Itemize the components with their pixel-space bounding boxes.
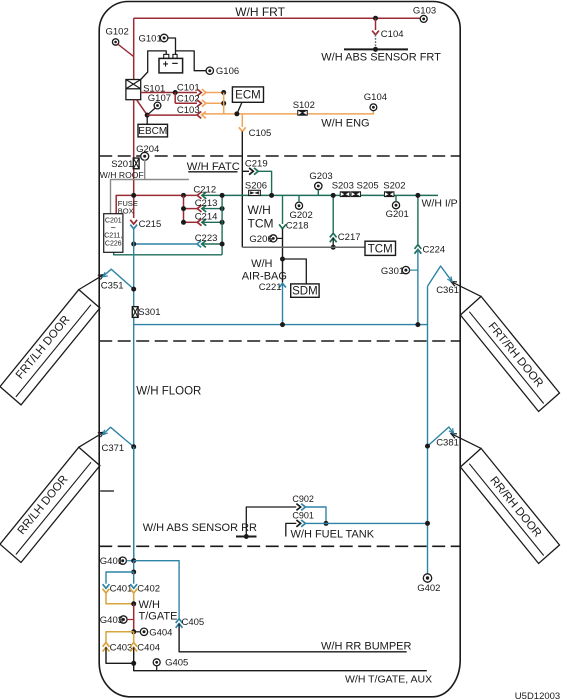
fuse box (104, 214, 123, 253)
node SDM junction (280, 257, 285, 262)
connector C221 arrow (279, 283, 286, 287)
wire C219 green (258, 171, 271, 195)
ground G201 (392, 202, 399, 209)
wire C105 to FATC (black) (241, 132, 243, 248)
node C102 orange end (221, 101, 226, 106)
svg-text:C102: C102 (177, 94, 200, 105)
wire C214 green (202, 221, 222, 223)
svg-text:C217: C217 (338, 232, 361, 243)
wire W/H TCM green main (202, 194, 438, 196)
wire EBCM lead (146, 115, 148, 124)
wire C401 teal (106, 572, 134, 584)
RR/RH DOOR (460, 448, 559, 563)
svg-text:U5D12003: U5D12003 (515, 691, 560, 700)
connector C218 arrow (279, 224, 286, 228)
wire C217 black (332, 238, 334, 247)
connector C103 arrows (197, 112, 201, 119)
svg-text:W/H RR BUMPER: W/H RR BUMPER (321, 640, 412, 652)
ground G405 (153, 659, 160, 666)
svg-text:C351: C351 (101, 281, 124, 292)
splice S206 (249, 190, 261, 195)
node C101 junction (173, 90, 178, 95)
svg-text:G107: G107 (148, 93, 171, 104)
connector C214 arrows (197, 219, 201, 226)
svg-text:W/H: W/H (248, 203, 271, 217)
wire C403 black (106, 647, 134, 663)
wire C214 red (184, 221, 198, 223)
splice S102 (297, 110, 308, 116)
wire battery + to S101 (141, 51, 167, 80)
svg-text:G106: G106 (216, 66, 239, 77)
wire left teal vertical (C215 to G401) (133, 229, 135, 561)
ECM box (232, 87, 263, 102)
svg-text:C218: C218 (286, 221, 309, 232)
splice S101 (126, 80, 141, 100)
svg-text:C226: C226 (105, 241, 122, 248)
svg-text:W/H FLOOR: W/H FLOOR (136, 386, 201, 398)
svg-text:W/H: W/H (251, 258, 272, 270)
RR/LH DOOR (0, 447, 100, 562)
connector C351 wire (104, 269, 134, 289)
wire G204 stem (grey) (144, 160, 146, 180)
connector C223 arrows (197, 241, 201, 248)
svg-text:C214: C214 (195, 212, 218, 223)
svg-text:G103: G103 (413, 5, 436, 16)
svg-text:G102: G102 (106, 27, 129, 38)
connector C405 arrows (176, 619, 183, 623)
green return loop to fuse box (114, 252, 222, 255)
battery terminal + (164, 54, 169, 58)
svg-text:C902: C902 (292, 494, 314, 504)
connector C105 arrow (239, 127, 246, 131)
wire C221 teal drop (282, 283, 284, 324)
wire C224 teal drop (417, 250, 419, 325)
ground G301 (402, 266, 409, 273)
wire S101 to EBCM node (red) (137, 100, 148, 115)
connector C403 arrows (103, 643, 110, 647)
svg-text:C404: C404 (137, 642, 160, 653)
connector C224 arrows (415, 245, 422, 249)
svg-text:TCM: TCM (248, 217, 274, 231)
svg-text:W/H ROOF: W/H ROOF (100, 170, 144, 180)
svg-text:G104: G104 (364, 92, 387, 103)
svg-text:W/H I/P: W/H I/P (422, 197, 458, 209)
wire teal floor horizontal (134, 324, 428, 326)
svg-text:C224: C224 (423, 244, 446, 255)
EBCM box (138, 124, 168, 137)
ground G107 (154, 102, 161, 109)
wire C105 drop (orange) (241, 114, 243, 127)
wire C103 (red) (147, 114, 196, 116)
connector C102 arrows (197, 100, 201, 107)
wire G102 to main (red) (118, 44, 134, 56)
node EBCM junction (145, 113, 150, 118)
SDM box (291, 284, 319, 297)
connector C902 arrows (296, 504, 300, 511)
wire W/H ROOF (grey) (111, 180, 189, 214)
ground G202 (295, 202, 302, 209)
svg-text:G206: G206 (249, 234, 272, 245)
wire right teal vertical (C361 to G402) (427, 286, 429, 574)
wire C401 orange (106, 593, 134, 604)
red riser C212-C214 (183, 195, 185, 222)
wire C104 drop (red) (375, 18, 377, 30)
svg-text:G202: G202 (290, 210, 313, 221)
wire C104 to ABS FRT bar (black) (375, 35, 377, 50)
ECM lead (237, 102, 242, 114)
svg-text:AIR-BAG: AIR-BAG (242, 270, 287, 282)
svg-text:S202: S202 (383, 180, 405, 191)
wire C219 stub (black) (243, 170, 249, 172)
ground G203 (315, 182, 322, 189)
connector C404 arrows (130, 643, 137, 647)
FRT/LH DOOR (0, 290, 100, 405)
ground G206 (270, 235, 277, 242)
svg-text:W/H FRT: W/H FRT (235, 5, 285, 19)
ground G106 (206, 67, 213, 74)
wire C218 green drop (282, 195, 284, 224)
svg-text:G204: G204 (136, 144, 159, 155)
splice S301 (132, 307, 138, 318)
svg-text:G401: G401 (100, 556, 123, 567)
body edge tick (100, 490, 114, 492)
svg-text:C401: C401 (110, 584, 133, 595)
connector C217 arrows (330, 233, 337, 237)
splice S203 S205 (340, 191, 351, 197)
wire C402 teal (133, 572, 135, 584)
node C403 junction (131, 661, 136, 666)
ground G401 (119, 557, 126, 564)
wire C218 black continuation (282, 229, 284, 283)
TCM box (365, 241, 396, 255)
svg-text:S102: S102 (293, 100, 315, 111)
svg-text:C402: C402 (137, 584, 160, 595)
wire C224 green drop (417, 195, 419, 244)
svg-text:G301: G301 (381, 266, 404, 277)
connector C104 arrow (372, 31, 379, 35)
svg-text:G402: G402 (417, 583, 440, 594)
wire to T/GATE AUX (134, 663, 427, 670)
connector C101 arrows (197, 89, 201, 96)
wire C404 orange (133, 632, 135, 643)
svg-text:W/H T/GATE, AUX: W/H T/GATE, AUX (345, 673, 432, 685)
svg-text:C105: C105 (249, 128, 272, 139)
svg-text:T/GATE: T/GATE (139, 610, 178, 622)
wire W/H ENG orange main (202, 111, 374, 114)
wire G107 stem (147, 108, 155, 115)
svg-text:C361: C361 (436, 285, 459, 296)
svg-text:S203 S205: S203 S205 (332, 180, 379, 191)
svg-text:G403: G403 (100, 615, 123, 626)
svg-text:−: − (172, 58, 178, 70)
wire C217 green drop (332, 195, 334, 233)
battery terminal - (173, 54, 177, 58)
wire C213 green (202, 208, 222, 210)
FRT/RH DOOR (460, 296, 559, 411)
wire T/GATE maroon segment (133, 604, 135, 632)
svg-text:S206: S206 (245, 180, 267, 191)
wire orange riser C101-C103 (223, 93, 225, 114)
wire left main vertical below S101 (red) (133, 100, 135, 218)
wire G401 to C405 (teal) (134, 561, 179, 619)
wire C102 orange (206, 102, 224, 104)
node on ABS FRT bar (373, 47, 378, 52)
wire W/H FRT horizontal (134, 17, 421, 19)
node C101 orange end (221, 90, 226, 95)
svg-text:G405: G405 (165, 658, 188, 669)
wire SDM lead (283, 259, 307, 284)
dashed separator line 2 (mid floor) (99, 340, 460, 342)
svg-text:+: + (163, 59, 169, 70)
green riser right (221, 195, 223, 254)
wire C223 green (202, 243, 222, 245)
node C219 junction on green main (269, 193, 274, 198)
node C221 on floor line (280, 322, 285, 327)
svg-text:SDM: SDM (292, 286, 318, 298)
svg-text:BOX: BOX (118, 206, 134, 215)
svg-text:S201: S201 (111, 159, 133, 170)
ground G403 (120, 616, 127, 623)
wire C102 (red) (175, 102, 197, 104)
svg-text:ECM: ECM (235, 90, 261, 102)
wire C405 to RR bumper (black) (179, 624, 407, 652)
ground G404 (140, 628, 147, 635)
ground G104 (370, 104, 377, 111)
node C224 on floor line (415, 322, 420, 327)
node C401/C402 branch (131, 570, 136, 575)
svg-text:W/H FATC: W/H FATC (187, 161, 240, 173)
svg-text:C104: C104 (381, 29, 404, 40)
wire C213 red (184, 208, 198, 210)
svg-text:W/H: W/H (139, 599, 160, 611)
node C212 left (131, 193, 136, 198)
svg-text:C371: C371 (102, 443, 125, 454)
ground G204 (141, 152, 149, 160)
svg-text:~: ~ (111, 223, 116, 233)
wire G401 to branch (teal) (133, 561, 135, 572)
wire C902 feed (black) (246, 507, 296, 537)
connector C213 arrows (197, 205, 201, 212)
RR/LH door leader arrow (79, 433, 103, 447)
ground G402 (423, 574, 431, 582)
wire C402 orange (133, 593, 135, 604)
node G404 junction (131, 629, 136, 634)
connector C361 wire (428, 266, 452, 286)
ground G102 (112, 39, 118, 45)
connector C371 wire (104, 427, 134, 447)
node G401 junction (131, 558, 136, 563)
svg-text:C219: C219 (245, 159, 268, 170)
node C104 junction (373, 16, 378, 21)
svg-text:W/H FUEL TANK: W/H FUEL TANK (291, 528, 375, 540)
node W/H T/GATE junction (131, 601, 136, 606)
svg-text:C381: C381 (436, 437, 459, 448)
car body outline (99, 2, 460, 697)
svg-text:W/H ABS SENSOR RR: W/H ABS SENSOR RR (143, 522, 257, 534)
svg-text:G203: G203 (309, 171, 332, 182)
wire left teal vertical lower (133, 447, 135, 561)
RR/RH door leader arrow (452, 434, 481, 448)
connector C212 arrows (197, 192, 201, 199)
ground G101 (160, 34, 168, 42)
wire TCM lead (grey) (242, 246, 365, 248)
svg-text:C405: C405 (182, 617, 205, 628)
svg-text:C215: C215 (139, 219, 162, 230)
FRT/RH door leader arrow (452, 282, 481, 296)
splice S202 (384, 191, 395, 197)
ground G103 (420, 15, 427, 22)
svg-text:C213: C213 (195, 198, 218, 209)
wire battery - to G106 (176, 51, 206, 71)
wire C101 (red) (141, 92, 197, 94)
wire C101 orange (206, 92, 224, 94)
wire C212 red feed (116, 195, 197, 213)
connector C381 wire (428, 427, 453, 446)
svg-text:S301: S301 (138, 307, 160, 318)
svg-text:G404: G404 (149, 627, 172, 638)
wire C404 black (133, 647, 135, 663)
svg-text:C223: C223 (195, 233, 218, 244)
svg-text:EBCM: EBCM (138, 126, 167, 137)
svg-text:W/H ABS SENSOR FRT: W/H ABS SENSOR FRT (321, 51, 441, 63)
svg-text:C403: C403 (110, 642, 133, 653)
W/H ABS SENSOR RR bar (236, 536, 257, 538)
node C212 mid (181, 193, 186, 198)
FRT/LH door leader arrow (79, 275, 103, 289)
dashed separator line 1 (front bulkhead) (99, 155, 460, 157)
W/H ABS SENSOR FRT bar (344, 48, 408, 50)
splice S201 (133, 158, 139, 169)
wire C901 feed (black) (286, 523, 297, 536)
battery (159, 58, 183, 73)
connector C901 arrows (296, 520, 300, 527)
svg-text:G201: G201 (386, 209, 409, 220)
svg-text:C212: C212 (193, 185, 216, 196)
dashed separator line 3 (rear) (99, 545, 460, 547)
node ECM junction (234, 111, 239, 116)
svg-text:C901: C901 (292, 510, 314, 520)
connector C219 arrows (249, 168, 253, 175)
svg-text:TCM: TCM (368, 243, 393, 255)
svg-text:C101: C101 (177, 83, 200, 94)
svg-text:W/H ENG: W/H ENG (321, 118, 369, 130)
connector C401 arrow (103, 584, 110, 588)
connector C402 arrow (130, 584, 137, 588)
wire C102 feed (red) (174, 93, 176, 104)
svg-text:C221: C221 (259, 282, 282, 293)
wire C902 teal (305, 507, 326, 523)
wire G101 to battery - (168, 38, 176, 55)
wire left main vertical (red, W/H FRT to S101) (133, 18, 135, 79)
svg-text:G101: G101 (139, 34, 162, 45)
connector C215 arrows (130, 220, 137, 224)
wire C403 orange (106, 632, 134, 643)
svg-text:C211,: C211, (104, 233, 122, 240)
wire C901 teal to right vertical (305, 522, 427, 524)
wire C223 teal (134, 243, 197, 245)
